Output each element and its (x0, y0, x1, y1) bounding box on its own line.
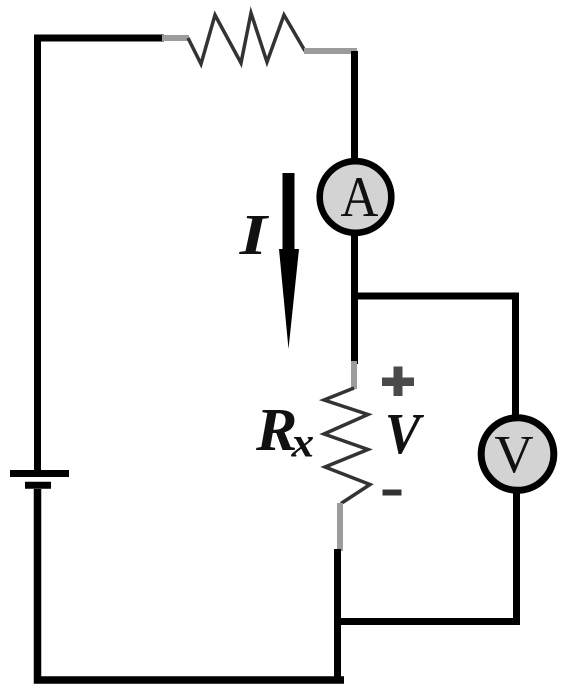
wire: ammeter bottom down to Rx top (through junction) (351, 232, 358, 364)
label + (voltage polarity plus) (382, 367, 414, 397)
wire: left vertical below battery + bottom horizontal (38, 489, 345, 680)
ammeter U1 circle (320, 161, 392, 233)
label V (voltage across Rx) (388, 415, 424, 454)
battery B1 long plate (+) (10, 470, 69, 477)
label I (239, 216, 269, 254)
resistor Rx top gray lead (351, 361, 357, 389)
current arrow (downward) (279, 173, 299, 349)
resistor Rx bottom gray lead (337, 503, 343, 551)
voltmeter U2 circle (481, 418, 554, 491)
voltmeter label V (495, 437, 533, 473)
wire: from resistor down to ammeter (351, 51, 358, 162)
resistor R (top series resistor) left gray lead (162, 35, 189, 41)
label - (voltage polarity minus) (383, 490, 402, 496)
label Rx (256, 410, 295, 450)
ammeter label A (341, 178, 378, 216)
resistor R right gray lead (304, 48, 357, 54)
wire: Rx bottom down to bottom wire (334, 549, 341, 683)
wire: voltmeter bottom down + horizontal back to main branch (334, 491, 517, 622)
wire: voltmeter branch top (horizontal + right vertical down to voltmeter) (351, 296, 516, 417)
battery B1 short plate (-) (25, 482, 51, 489)
resistor R zigzag body (188, 13, 305, 64)
wire: top-left loop (top horizontal + left vertical down to battery) (38, 38, 165, 470)
resistor Rx zigzag body (324, 388, 370, 504)
